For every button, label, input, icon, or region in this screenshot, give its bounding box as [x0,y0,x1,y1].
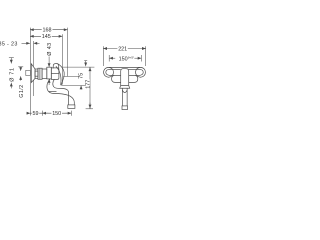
wire ext lines 221 [102,46,104,66]
node text 75 [79,72,83,80]
wire ref line spout top extended [63,76,79,78]
component escutcheon cone [31,64,35,83]
component neck cylinder C [42,69,47,78]
component neck cylinder B [38,68,42,79]
node text dia71 [9,68,14,82]
component inlet square G1/2 [35,71,38,76]
svg-text:59: 59 [33,111,39,117]
node dim 145 line [30,35,62,37]
component center body [121,69,129,86]
svg-text:150: 150 [52,111,61,117]
node dim 177 vertical line [89,67,91,108]
node pointer arrow to ref line [85,61,87,67]
node text 145 [41,34,52,40]
node dim dia71 stack [9,57,14,59]
wire handles top tangent line [109,66,141,68]
node text 177 [85,79,89,89]
wire body seam line [51,73,59,75]
svg-text:168: 168 [43,28,52,34]
node dim 35-23 arrows [22,42,31,44]
component spout outer edge J-curve [47,79,74,105]
svg-text:177: 177 [85,80,91,89]
node dim 221 line [103,48,145,50]
wire wall face extension line B bottom [33,80,35,96]
component handle lever blade [56,64,64,85]
component valve body [51,68,59,80]
component spout inner edge J-curve [53,80,69,105]
component right under lobe [129,75,138,82]
component body flare [120,85,130,88]
component union nut [47,67,52,79]
svg-text:221: 221 [118,47,127,53]
node text 59 [32,111,39,117]
wire spout seam line [49,90,57,92]
svg-text:G1/2: G1/2 [19,84,25,97]
node dim 59-150 bottom line [27,112,31,114]
component left lever bar [109,69,121,75]
node dim 150deg bars [108,55,110,62]
wire ref tick outlet bottom [86,108,93,110]
svg-text:75: 75 [79,73,85,79]
node text 150 [51,111,62,117]
wire ext line 168 end [67,28,69,77]
svg-text:145: 145 [42,34,51,40]
node dim 75 arrow [80,86,82,90]
component left handle outer ring [104,67,114,77]
wire ref line lever tip [61,85,90,87]
node text 221 [117,46,127,52]
component left under lobe [112,75,121,82]
svg-text:150°: 150° [119,56,130,62]
component handle knob [53,64,59,69]
wire wall face extension line B top [33,41,35,66]
wire ext line 145 end [61,34,63,84]
wire ref tick top [84,60,87,62]
svg-text:+5°: +5° [130,55,135,59]
svg-text:Ø 71: Ø 71 [10,67,16,82]
component right handle inner ring [138,70,144,76]
component right handle outer ring [136,67,146,77]
node dim 168 line [30,29,68,31]
wire wall reference extension line A [29,28,31,116]
component right lever bar [129,69,141,75]
component left handle inner ring [106,70,112,76]
svg-text:Ø 43: Ø 43 [47,43,53,56]
node text 168 [42,27,53,33]
component top view aerator [122,106,128,110]
component spout aerator bell [68,105,75,109]
node dim dia43 leader [48,57,50,68]
component top view spout tube [121,88,123,106]
node dim G12 stack [18,66,23,68]
wire ref line near column [63,66,95,68]
component concealed supply square [26,70,31,75]
component connector block [35,69,38,78]
svg-text:35 - 23: 35 - 23 [0,41,18,47]
component tube dome arc [122,90,127,92]
